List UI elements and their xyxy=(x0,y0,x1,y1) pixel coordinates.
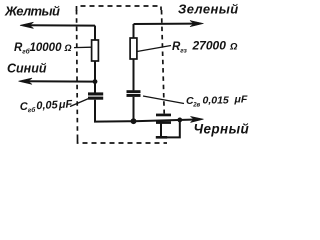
junction node: C2 / ground bus xyxy=(131,118,137,124)
arrow yellow (points left) xyxy=(20,22,34,28)
pointer line for R(гб) label xyxy=(74,46,92,48)
junction node: bus / shield loop xyxy=(177,118,182,123)
wire: top lead of R2 xyxy=(133,24,135,38)
wire yellow lead xyxy=(28,24,95,26)
resistor R(гб) 10000 ohm body xyxy=(92,40,99,61)
dashed shield box: top edge xyxy=(77,6,162,11)
feedthrough capacitor plates (shield exit) xyxy=(156,114,171,117)
junction node: blue wire / R1 branch xyxy=(93,79,98,84)
pointer line for C(гз) label xyxy=(143,96,184,104)
wire: feedthrough bottom plate to chassis bar xyxy=(160,123,162,137)
arrow blue (points left) xyxy=(19,78,33,84)
dashed shield box: right edge xyxy=(162,10,165,114)
arrow green (points right) xyxy=(190,21,204,27)
dashed shield box: left edge xyxy=(77,10,78,139)
wire: top lead of R1 xyxy=(94,26,96,40)
wire: ground bus to black lead xyxy=(134,120,197,122)
chassis bar xyxy=(156,136,167,139)
label C(гб) 0,05 uF xyxy=(20,98,73,114)
resistor R(гз) 27000 ohm body xyxy=(130,38,137,59)
arrow black (points right) xyxy=(191,116,204,122)
wire: C1 bottom to ground bus xyxy=(95,100,134,122)
wire green lead xyxy=(134,23,197,25)
dashed shield box: bottom edge xyxy=(78,139,168,143)
pointer line for R(гз) label xyxy=(137,46,171,52)
pointer line for C(гб) label xyxy=(70,98,91,107)
wire: C2 bottom to ground bus junction xyxy=(133,97,135,121)
svg-text:Синий: Синий xyxy=(7,62,47,76)
svg-text:Желтый: Желтый xyxy=(4,3,60,18)
wire blue lead xyxy=(26,80,95,82)
wire: R2 bottom to C2 xyxy=(133,59,135,90)
capacitor C(гб) 0.05uF plates xyxy=(88,92,103,95)
svg-text:Черный: Черный xyxy=(194,122,250,137)
svg-text:Зеленый: Зеленый xyxy=(178,2,239,17)
wire: R1 bottom to blue junction and C1 xyxy=(94,61,96,93)
wire: shield loop from bus junction down to chassis bar xyxy=(166,120,180,137)
capacitor C(гз) 0.015uF plates xyxy=(127,90,141,93)
